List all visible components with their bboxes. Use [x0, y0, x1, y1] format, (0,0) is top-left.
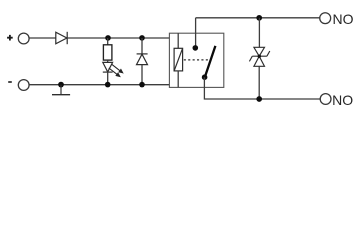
- diode D3 freewheel: [137, 54, 148, 65]
- svg-text:NO: NO: [333, 11, 354, 27]
- terminal circle -: [18, 80, 29, 91]
- diode D1: [56, 32, 67, 44]
- coil bottom lead: [177, 71, 179, 88]
- wire resistor lead: [107, 38, 109, 45]
- minus label: [8, 81, 12, 83]
- plus label: [7, 35, 13, 41]
- wire resistor to LED: [107, 60, 109, 62]
- wire freewheel bottom lead: [141, 65, 143, 85]
- node C (bottom of LED branch): [105, 82, 111, 88]
- resistor R1: [103, 45, 112, 60]
- TVS bottom lead: [258, 66, 260, 99]
- wire plus to diode: [29, 37, 56, 39]
- TVS top lead: [258, 18, 260, 48]
- node D (bottom of diode branch): [139, 82, 145, 88]
- switch fixed contact lead: [195, 18, 197, 48]
- LED arrows: [109, 64, 123, 76]
- coil top lead: [177, 33, 179, 48]
- ground node: [58, 82, 64, 88]
- terminal circle NO top: [320, 13, 331, 24]
- wire diode to box: [67, 37, 169, 39]
- svg-text:NO: NO: [332, 92, 353, 108]
- TVS suppressor: [249, 47, 269, 66]
- node B (top of diode branch): [139, 35, 145, 41]
- node E (top of TVS): [256, 15, 262, 21]
- switch pole lead down: [204, 77, 320, 99]
- relay box K1: [169, 33, 223, 87]
- wire freewheel top lead: [141, 38, 143, 54]
- node F (bottom of TVS): [256, 96, 262, 102]
- terminal circle +: [18, 33, 29, 44]
- mechanical link (dashed): [184, 59, 210, 61]
- wire LED to bottom: [107, 72, 109, 85]
- terminal circle NO bottom: [320, 94, 331, 105]
- switch pole dot: [202, 74, 208, 80]
- switch blade: [205, 46, 216, 77]
- TVS center junction: [258, 55, 261, 58]
- switch fixed contact dot: [193, 45, 199, 51]
- LED D2: [103, 62, 113, 72]
- top-right wire: [196, 17, 320, 19]
- relay coil: [174, 48, 183, 71]
- bottom wire: [29, 84, 169, 86]
- node A (top of LED branch): [105, 35, 111, 41]
- ground: [52, 85, 70, 95]
